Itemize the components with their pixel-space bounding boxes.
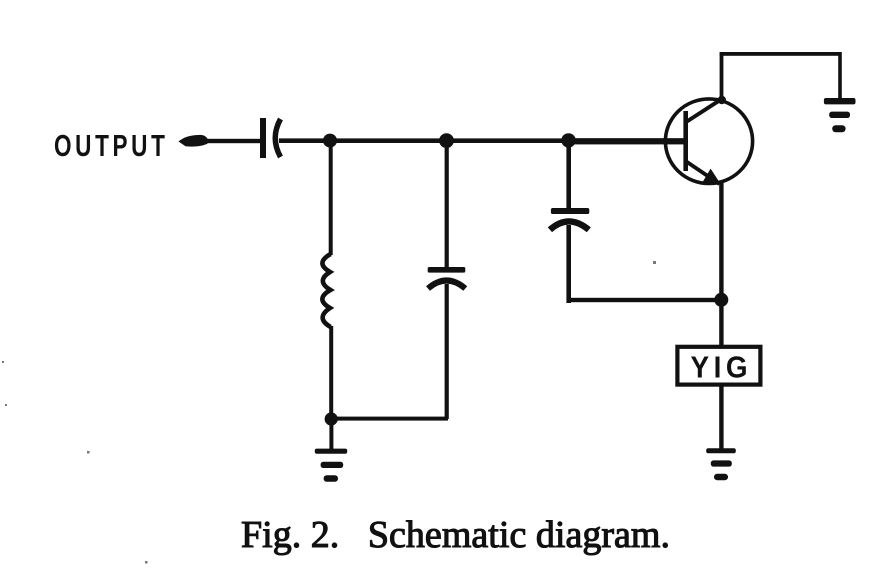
output arrow [179, 135, 263, 147]
svg-text:Fig. 2. Schematic diagram.: Fig. 2. Schematic diagram. [241, 514, 670, 556]
capacitor C1 (output coupling) [260, 118, 281, 158]
wire drop to ground G2 [838, 52, 842, 99]
capacitor C2 (tank) [428, 267, 466, 289]
wire C2 branch down [445, 145, 449, 269]
transistor Q1 circle [665, 99, 752, 184]
svg-text:OUTPUT: OUTPUT [54, 128, 169, 163]
node B junction dot [439, 133, 454, 148]
svg-text:YIG: YIG [691, 350, 753, 385]
wire C3 branch down [566, 145, 571, 211]
node C junction dot [561, 133, 575, 147]
ground G1 (tank) [315, 449, 347, 482]
inductor L1 [322, 254, 330, 327]
node A junction dot [323, 134, 337, 148]
wire C2 to bottom wire [445, 284, 449, 419]
node E junction dot [714, 293, 728, 307]
node collector-top blob [718, 96, 726, 104]
ground G3 (YIG) [706, 448, 736, 480]
wire C3 to feedback wire [566, 225, 571, 303]
capacitor C3 (feedback) [550, 208, 589, 230]
wire inductor to node D [329, 326, 333, 416]
transistor Q1 emitter arrow [703, 169, 721, 185]
wire base lead (thicker segment) [568, 138, 687, 144]
wire collector up [720, 53, 724, 99]
scan speckles [2, 261, 656, 564]
wire emitter down [719, 183, 723, 345]
wire node D to ground [329, 423, 333, 450]
wire inductor branch down [329, 145, 333, 255]
wire bottom tank [331, 417, 448, 421]
node D junction dot [325, 412, 338, 425]
transistor Q1 collector stroke [685, 99, 722, 123]
ground G2 (collector) [824, 98, 856, 132]
transistor Q1 emitter stroke [687, 162, 720, 184]
transistor Q1 base bar [683, 111, 688, 171]
YIG sphere box [677, 347, 760, 385]
wire main rail [279, 138, 687, 143]
wire collector top horizontal [720, 52, 841, 56]
wire feedback horizontal [567, 298, 723, 302]
wire YIG to ground [719, 385, 723, 449]
